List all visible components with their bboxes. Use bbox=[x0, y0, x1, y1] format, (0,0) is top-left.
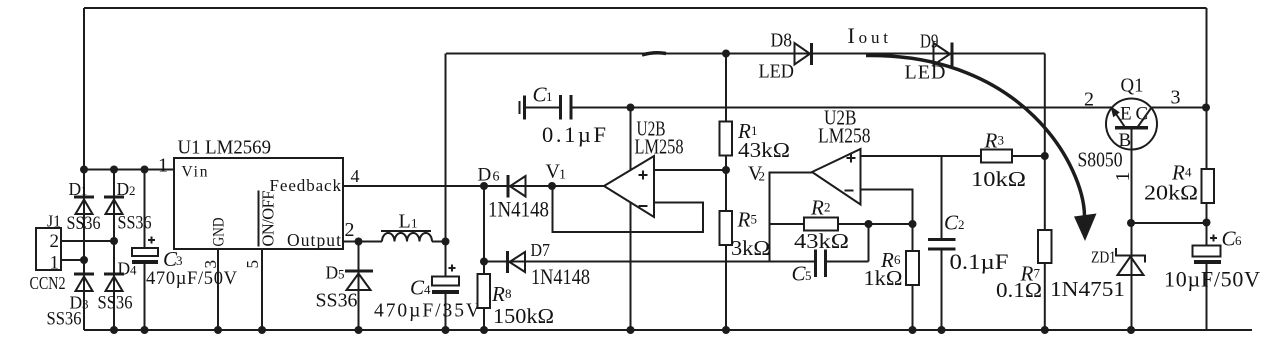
wire Q1 collector to frame bbox=[1152, 104, 1211, 112]
wire bottom ground rail bbox=[84, 329, 1252, 331]
svg-text:SS36: SS36 bbox=[47, 309, 82, 330]
svg-text:SS36: SS36 bbox=[316, 290, 358, 312]
svg-text:GND: GND bbox=[211, 218, 228, 247]
svg-text:D: D bbox=[118, 259, 131, 279]
diode D8 LED bbox=[759, 30, 812, 83]
capacitor C2 0.1uF bbox=[928, 156, 1009, 334]
diode D5 SS36 bbox=[316, 242, 374, 335]
svg-text:LED: LED bbox=[759, 61, 795, 83]
diode D4 SS36 bbox=[98, 259, 138, 314]
svg-text:Feedback: Feedback bbox=[270, 176, 342, 195]
svg-text:L: L bbox=[399, 211, 411, 233]
wire left frame bbox=[83, 8, 85, 330]
wire op2 minus input bbox=[861, 190, 913, 225]
wire C4 column bbox=[442, 54, 450, 335]
svg-text:CCN2: CCN2 bbox=[30, 273, 66, 293]
resistor R3 10k bbox=[971, 129, 1026, 192]
svg-text:43kΩ: 43kΩ bbox=[738, 138, 790, 162]
svg-text:1: 1 bbox=[559, 168, 566, 183]
wire J1 pin1 to bridge bbox=[61, 256, 88, 264]
diode D2 SS36 bbox=[104, 179, 152, 234]
svg-text:U1 LM2569: U1 LM2569 bbox=[178, 138, 272, 159]
svg-text:Output: Output bbox=[287, 230, 341, 250]
diode D7 1N4148 bbox=[508, 240, 591, 289]
svg-text:Q1: Q1 bbox=[1121, 75, 1144, 97]
wire R2 row bbox=[771, 220, 917, 228]
svg-text:D8: D8 bbox=[771, 30, 793, 52]
svg-text:C: C bbox=[1136, 104, 1149, 125]
wire D9 drop and R7 column bbox=[1041, 54, 1049, 335]
svg-text:5: 5 bbox=[243, 260, 262, 269]
svg-text:R: R bbox=[737, 208, 751, 232]
svg-text:D: D bbox=[69, 179, 82, 199]
wire L1 to C4 node bbox=[432, 238, 450, 246]
op-amp U2B LM258 (1) bbox=[604, 117, 684, 218]
diode D6 1N4148 bbox=[478, 165, 550, 222]
wire op2 plus input R3 row bbox=[861, 152, 1049, 160]
svg-text:LM258: LM258 bbox=[635, 135, 684, 159]
inductor L1 bbox=[381, 211, 432, 242]
capacitor C6 10uF/50V bbox=[1164, 227, 1260, 292]
svg-text:3: 3 bbox=[1171, 87, 1181, 109]
op-amp U2B LM258 (2) bbox=[812, 106, 871, 205]
svg-text:SS36: SS36 bbox=[118, 213, 152, 234]
svg-text:D7: D7 bbox=[531, 240, 551, 260]
resistor R2 43k bbox=[794, 196, 849, 254]
wire op-amp U2B(1) riser bbox=[627, 108, 635, 335]
resistor R8 150k bbox=[478, 274, 555, 328]
svg-text:3: 3 bbox=[82, 297, 89, 312]
svg-text:5: 5 bbox=[338, 267, 345, 282]
svg-text:3kΩ: 3kΩ bbox=[731, 236, 770, 260]
IC U1 LM2569 bbox=[158, 138, 360, 269]
svg-text:R: R bbox=[984, 129, 998, 153]
resistor R1 43k bbox=[720, 119, 791, 162]
wire R1 R5 divider column bbox=[722, 54, 730, 335]
resistor R6 1k bbox=[864, 224, 920, 334]
svg-text:470µF/50V: 470µF/50V bbox=[146, 269, 238, 289]
wire right frame bbox=[1206, 8, 1208, 330]
svg-text:J1: J1 bbox=[47, 212, 61, 231]
zener ZD1 1N4751 bbox=[1050, 248, 1145, 302]
wire op1 plus input row to V2 bbox=[654, 166, 730, 174]
capacitor C5 bbox=[792, 224, 869, 286]
svg-text:5: 5 bbox=[751, 212, 758, 227]
svg-text:20kΩ: 20kΩ bbox=[1144, 181, 1198, 205]
svg-text:C: C bbox=[410, 276, 425, 300]
svg-text:1N4148: 1N4148 bbox=[488, 197, 549, 222]
wire Vin input row bbox=[80, 166, 174, 174]
connector J1 CCN2 bbox=[30, 212, 66, 294]
svg-text:5: 5 bbox=[805, 268, 812, 283]
svg-text:4: 4 bbox=[130, 263, 137, 278]
wire top rail bbox=[84, 7, 1207, 9]
svg-text:SS36: SS36 bbox=[98, 293, 133, 314]
wire top LED rail bbox=[446, 50, 1045, 58]
svg-text:3: 3 bbox=[998, 133, 1005, 148]
svg-text:3: 3 bbox=[176, 253, 183, 268]
wire R8 column bbox=[480, 186, 488, 334]
svg-text:4: 4 bbox=[424, 282, 431, 297]
svg-text:2: 2 bbox=[824, 200, 831, 215]
wire C1 to Q1 emitter row bbox=[573, 104, 1113, 112]
diode D3 SS36 bbox=[47, 274, 95, 330]
wire Q1 base column bbox=[1127, 130, 1135, 335]
svg-text:R: R bbox=[810, 196, 824, 220]
wire U1 GND pin bbox=[214, 249, 222, 334]
svg-text:1: 1 bbox=[81, 183, 88, 198]
svg-text:2: 2 bbox=[1084, 89, 1094, 111]
svg-text:1N4751: 1N4751 bbox=[1050, 277, 1125, 301]
svg-text:R: R bbox=[491, 282, 505, 306]
svg-text:6: 6 bbox=[894, 252, 901, 267]
label Iout bbox=[848, 23, 889, 48]
svg-text:8: 8 bbox=[505, 286, 512, 301]
svg-text:ON/OFF: ON/OFF bbox=[259, 191, 278, 247]
svg-text:10µF/50V: 10µF/50V bbox=[1164, 267, 1260, 292]
svg-text:2: 2 bbox=[345, 219, 355, 241]
svg-text:2: 2 bbox=[958, 217, 965, 232]
svg-text:0.1µF: 0.1µF bbox=[950, 249, 1009, 274]
svg-text:LM258: LM258 bbox=[818, 124, 871, 148]
resistor R5 3k bbox=[720, 208, 771, 261]
svg-text:SS36: SS36 bbox=[67, 213, 101, 234]
svg-text:D: D bbox=[117, 179, 130, 199]
node V1 bbox=[546, 161, 567, 191]
svg-text:1: 1 bbox=[50, 253, 60, 274]
svg-text:D: D bbox=[478, 165, 492, 186]
wire U1 feedback row bbox=[343, 182, 604, 190]
wire op1 minus feedback loop bbox=[553, 186, 704, 232]
svg-text:2: 2 bbox=[50, 231, 60, 252]
current flow curved arrow bbox=[642, 53, 1097, 241]
svg-text:Vin: Vin bbox=[182, 164, 208, 181]
svg-text:0.1Ω: 0.1Ω bbox=[996, 278, 1042, 302]
wire zener node to R4 node bbox=[1131, 219, 1211, 227]
capacitor C4 470uF/35V bbox=[374, 265, 480, 322]
ground symbol at C1 bbox=[520, 96, 525, 120]
svg-text:S8050: S8050 bbox=[1078, 148, 1123, 172]
svg-text:4: 4 bbox=[1185, 165, 1192, 180]
wire op2 output branch riser bbox=[770, 173, 813, 263]
svg-text:1: 1 bbox=[411, 216, 418, 231]
svg-text:1kΩ: 1kΩ bbox=[864, 266, 903, 290]
svg-text:D: D bbox=[326, 263, 339, 283]
svg-text:ZD1: ZD1 bbox=[1091, 248, 1116, 267]
resistor R4 20k bbox=[1144, 161, 1214, 205]
svg-text:1N4148: 1N4148 bbox=[531, 264, 590, 289]
svg-text:C: C bbox=[944, 211, 959, 235]
svg-text:D9: D9 bbox=[920, 31, 939, 53]
node V2 bbox=[748, 163, 765, 185]
svg-text:43kΩ: 43kΩ bbox=[794, 229, 849, 253]
wire J1 pin2 to bridge bbox=[61, 237, 118, 245]
svg-text:0.1µF: 0.1µF bbox=[542, 122, 606, 147]
diode D9 LED bbox=[905, 31, 953, 84]
wire bridge right column bbox=[110, 170, 118, 335]
svg-text:6: 6 bbox=[1235, 233, 1242, 248]
svg-text:10kΩ: 10kΩ bbox=[971, 167, 1026, 191]
svg-text:2: 2 bbox=[129, 183, 136, 198]
svg-text:6: 6 bbox=[493, 170, 500, 185]
wire U1 output to L1 bbox=[343, 238, 382, 246]
wire D7 row bbox=[484, 261, 814, 263]
svg-text:4: 4 bbox=[351, 166, 360, 186]
transistor Q1 S8050 bbox=[1078, 75, 1181, 182]
capacitor C1 0.1uF bbox=[525, 83, 606, 148]
svg-text:1: 1 bbox=[546, 89, 553, 104]
diode D1 SS36 bbox=[67, 179, 101, 234]
svg-text:1: 1 bbox=[158, 155, 168, 177]
capacitor C3 470uF/50V bbox=[132, 170, 238, 335]
wire U1 ON/OFF pin bbox=[258, 249, 266, 334]
svg-text:2: 2 bbox=[759, 169, 766, 184]
svg-text:1: 1 bbox=[751, 123, 758, 138]
svg-text:150kΩ: 150kΩ bbox=[493, 304, 554, 328]
resistor R7 0.1ohm bbox=[996, 230, 1052, 302]
svg-text:E: E bbox=[1120, 104, 1132, 125]
